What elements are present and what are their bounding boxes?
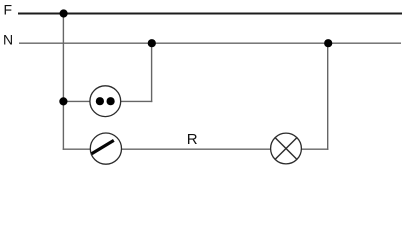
junction dot on N line (right, lamp return): [324, 39, 332, 47]
junction dot on lower F branch: [59, 97, 67, 105]
wire right riser up to N line: [327, 43, 329, 150]
wire vertical from F junction down to bottom branch: [62, 14, 64, 150]
junction dot on N line (left, socket feed): [148, 39, 156, 47]
wire F line (phase): [18, 13, 402, 15]
wire N line (neutral): [19, 42, 401, 44]
wire from switch to lamp: [120, 148, 272, 150]
wire from lower F junction to socket left terminal: [63, 100, 92, 102]
lamp symbol (receptor R): [271, 133, 302, 164]
junction dot on F line: [60, 9, 68, 17]
switch symbol: [90, 133, 121, 164]
wire bottom from corner to switch: [63, 148, 92, 150]
svg-text:R: R: [187, 131, 198, 148]
socket outlet symbol: [90, 86, 121, 117]
wire from socket right terminal to N branch corner: [119, 100, 152, 102]
svg-text:N: N: [3, 32, 13, 48]
wire vertical from N junction down to socket branch: [151, 43, 153, 102]
svg-text:F: F: [4, 2, 13, 18]
wire from lamp to right riser: [300, 148, 328, 150]
